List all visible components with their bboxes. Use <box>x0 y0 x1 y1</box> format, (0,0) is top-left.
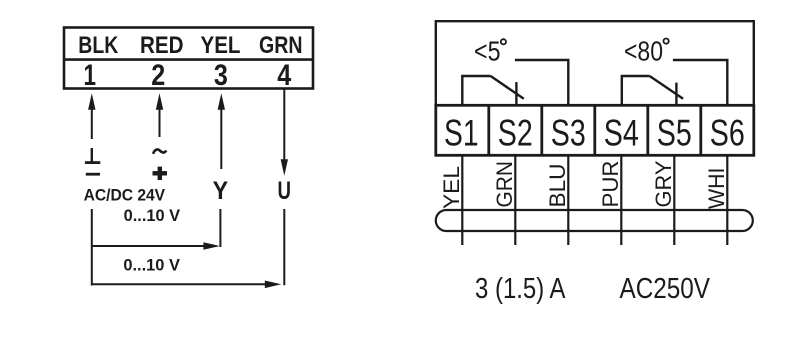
svg-text:3 (1.5) A: 3 (1.5) A <box>475 273 566 305</box>
svg-text:<5: <5 <box>474 36 501 67</box>
terminal strip S1-S6 <box>436 105 754 155</box>
wire below S2 <box>514 155 516 245</box>
switch A blade <box>491 76 524 99</box>
wire arrow up into terminal 3 <box>220 108 222 169</box>
svg-text:RED: RED <box>140 32 184 59</box>
switch B contact wire S6 <box>673 60 727 105</box>
divider S5/S6 <box>699 105 702 155</box>
svg-text:GRY: GRY <box>651 160 676 207</box>
arrowhead right at Y wire <box>203 242 220 250</box>
svg-text:YEL: YEL <box>439 166 464 209</box>
wire down from terminal 4 <box>283 90 285 161</box>
svg-text:GRN: GRN <box>492 161 517 208</box>
wire below S6 <box>726 155 728 245</box>
svg-text:GRN: GRN <box>259 32 303 59</box>
svg-text:S4: S4 <box>604 113 639 154</box>
svg-text:S3: S3 <box>551 113 586 154</box>
arrowhead up terminal 3 <box>218 93 225 110</box>
switch B blade <box>650 76 684 99</box>
AC tilde symbol <box>153 150 166 154</box>
wire below S1 <box>461 155 463 245</box>
divider S4/S5 <box>646 105 649 155</box>
terminal block table <box>64 28 313 89</box>
svg-text:PUR: PUR <box>598 161 623 208</box>
signal line 0...10V to U <box>92 283 268 285</box>
divider S2/S3 <box>540 105 543 155</box>
svg-text:YEL: YEL <box>201 32 241 59</box>
signal line 0...10V to Y <box>92 245 206 247</box>
svg-text:U: U <box>278 177 292 205</box>
svg-text:WHI: WHI <box>704 168 729 210</box>
ground symbol at terminal 1 wire <box>91 148 93 162</box>
svg-text:Y: Y <box>213 177 229 205</box>
wire below S4 <box>620 155 622 245</box>
arrowhead down toward U <box>281 159 288 176</box>
switch A common stub from S1 <box>462 76 490 105</box>
svg-text:S2: S2 <box>498 113 533 154</box>
svg-text:4: 4 <box>277 59 292 92</box>
svg-text:S1: S1 <box>444 113 479 154</box>
svg-text:1: 1 <box>84 59 97 92</box>
wire below U <box>283 209 285 285</box>
wire below Y <box>219 209 221 247</box>
svg-text:0...10 V: 0...10 V <box>124 206 181 225</box>
wire below S3 <box>567 155 569 245</box>
wire below ground down left side <box>91 209 93 286</box>
wire arrow up into terminal 1 <box>91 108 93 139</box>
svg-text:2: 2 <box>151 59 165 92</box>
svg-text:<80: <80 <box>624 35 663 66</box>
DC plus symbol <box>153 171 168 175</box>
wire arrow up into terminal 2 <box>159 108 161 137</box>
svg-text:0...10 V: 0...10 V <box>123 256 179 275</box>
switch B contact stub S5 <box>675 83 677 106</box>
divider S1/S2 <box>487 105 490 155</box>
switch A contact stub S2 <box>515 82 517 106</box>
arrowhead up terminal 1 <box>88 93 95 110</box>
table divider line <box>64 58 313 61</box>
svg-text:S6: S6 <box>710 113 745 154</box>
switch B common stub from S4 <box>622 76 650 105</box>
actuator outer box <box>436 21 754 105</box>
arrowhead right at U wire <box>265 281 282 289</box>
divider S3/S4 <box>593 105 596 155</box>
svg-text:AC250V: AC250V <box>620 273 711 305</box>
svg-text:3: 3 <box>214 59 228 92</box>
svg-text:S5: S5 <box>657 113 692 154</box>
svg-text:BLK: BLK <box>78 32 119 59</box>
svg-text:BLU: BLU <box>545 164 570 208</box>
svg-text:AC/DC 24V: AC/DC 24V <box>84 187 166 205</box>
cable sheath <box>436 210 753 231</box>
switch A contact wire S3 <box>515 60 568 105</box>
arrowhead up terminal 2 <box>156 93 163 110</box>
wire below S5 <box>673 155 675 245</box>
